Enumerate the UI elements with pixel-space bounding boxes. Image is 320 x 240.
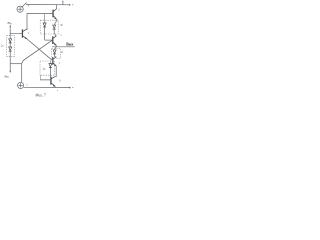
wire T2 collector from rail <box>55 5 57 9</box>
input arrow Vx1 <box>9 25 11 29</box>
dashed box 2b top right <box>40 20 58 34</box>
generator G2 plus sign <box>19 84 23 88</box>
wire to generator G2 <box>21 64 23 83</box>
diode D5 <box>53 50 56 57</box>
diode D2 <box>9 47 12 64</box>
wire cross-coupling A <box>27 39 52 60</box>
dashed box 2d bottom <box>40 61 54 75</box>
transistor T4 <box>53 57 57 77</box>
transistor T5 <box>40 75 56 87</box>
wire stub from base line to D3 <box>44 14 46 23</box>
wire T2 emitter to D4 <box>54 19 56 25</box>
wire lower-left horizontal <box>10 63 22 65</box>
node terminal tick on top rail <box>62 2 64 5</box>
node dot at top rail right end <box>69 4 71 6</box>
dashed box 2g right <box>52 48 61 58</box>
diode D6 <box>49 61 52 77</box>
dashed box 2a left <box>6 36 14 57</box>
wire into box <box>9 34 11 39</box>
generator G2 circle <box>18 82 24 88</box>
transistor T3 <box>53 36 57 47</box>
diode D1 <box>9 39 12 47</box>
wire T2 base lead horizontal <box>27 13 53 15</box>
wire input stub to base corner <box>9 29 11 34</box>
transistor T1 <box>10 29 27 39</box>
wire output junction to D5 <box>55 47 57 50</box>
generator G1 plus sign <box>18 7 22 11</box>
node dot output end <box>73 45 76 48</box>
generator G1 circle <box>17 6 23 12</box>
wire cross-coupling B <box>22 40 53 63</box>
wire bottom rail <box>24 86 70 88</box>
node dot bottom rail end <box>69 87 71 89</box>
wire T1 collector vertical <box>26 14 28 30</box>
node dot right of bottom rail <box>72 87 73 88</box>
svg-text:2в: 2в <box>60 35 62 37</box>
node isolated dot right of rail end <box>72 4 73 5</box>
input stub Vx2 <box>9 64 11 73</box>
wire top rail <box>26 3 69 5</box>
wire diagonal from G1 to top rail <box>22 3 27 7</box>
transistor T2 <box>53 9 56 19</box>
svg-text:Фиг. 7: Фиг. 7 <box>35 94 46 98</box>
diode D3 <box>43 23 52 40</box>
svg-text:Вых: Вых <box>66 43 73 47</box>
diode D4 <box>53 25 57 36</box>
wire output line <box>52 46 74 48</box>
node dot above tick <box>62 1 63 2</box>
